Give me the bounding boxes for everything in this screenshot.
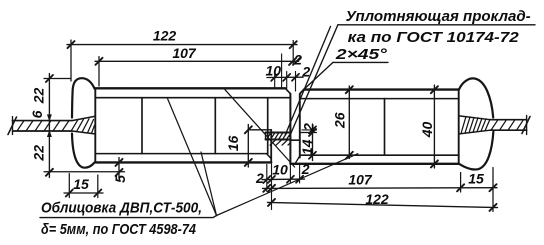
right cap (edge strip): [459, 78, 494, 169]
svg-text:6: 6: [29, 110, 45, 118]
dimension 107 bottom with 15 right: [263, 173, 498, 193]
dimension 2/14 middle right: [301, 124, 317, 161]
svg-text:2: 2: [301, 123, 317, 132]
dimension 5 bottom left: [116, 158, 123, 179]
left cap (edge strip): [72, 78, 95, 168]
svg-text:122: 122: [365, 191, 389, 207]
leader across left leaf: [225, 90, 295, 167]
svg-text:107: 107: [348, 172, 373, 188]
svg-text:Облицовка ДВП,СТ-500,: Облицовка ДВП,СТ-500,: [41, 200, 202, 217]
dimension 26: [346, 86, 353, 159]
svg-text:22: 22: [31, 145, 47, 162]
svg-text:15: 15: [468, 171, 484, 187]
svg-text:40: 40: [419, 122, 435, 139]
svg-text:10: 10: [272, 162, 288, 178]
dimension 107 top: [95, 57, 299, 87]
svg-text:2: 2: [301, 63, 310, 79]
right leaf inner dividers: [384, 99, 386, 156]
svg-text:Уплотняющая проклад-: Уплотняющая проклад-: [346, 8, 531, 25]
right leaf top facing: [300, 90, 459, 99]
leader: sealing gasket note (two branches): [285, 25, 535, 137]
dimension 15 bottom left: [64, 174, 103, 198]
left leaf rebate step: [248, 94, 290, 164]
svg-text:2: 2: [301, 161, 310, 177]
left sealing gasket bar: [8, 116, 95, 134]
svg-text:14: 14: [299, 139, 315, 155]
right sealing gasket bar: [459, 116, 530, 135]
svg-text:5: 5: [112, 175, 128, 183]
svg-text:2: 2: [255, 170, 264, 186]
svg-text:10: 10: [266, 62, 282, 78]
middle sealing gasket (hatched): [266, 133, 291, 146]
svg-text:ка по ГОСТ 10174-72: ка по ГОСТ 10174-72: [348, 29, 520, 46]
right leaf bottom facing: [290, 155, 458, 164]
left leaf top facing: [95, 88, 290, 97]
dimension 122 top: [67, 40, 297, 81]
dimension 16 middle: [245, 125, 252, 168]
svg-text:δ= 5мм, по ГОСТ 4598-74: δ= 5мм, по ГОСТ 4598-74: [41, 221, 197, 238]
svg-text:16: 16: [225, 136, 241, 152]
dimension 2 upper middle tick: [293, 58, 300, 65]
dimension chain 2/10/2 bottom middle: [262, 164, 305, 210]
svg-text:15: 15: [73, 176, 89, 192]
left leaf inner dividers: [142, 98, 268, 154]
svg-text:22: 22: [31, 88, 47, 105]
svg-text:122: 122: [153, 28, 177, 44]
right leaf left edge with chamfer: [290, 90, 303, 158]
leader: 2x45 chamfer: [300, 62, 388, 92]
svg-text:26: 26: [331, 112, 347, 129]
svg-text:2×45°: 2×45°: [335, 46, 389, 63]
svg-text:107: 107: [172, 45, 197, 61]
svg-text:2: 2: [293, 51, 302, 67]
dimension 122 bottom: [268, 168, 498, 212]
left leaf bottom facing: [95, 154, 271, 163]
dimension 40: [431, 85, 438, 168]
leader: facing note (three branches with shelf): [40, 99, 358, 218]
dimension chain 22/6/22 left: [44, 74, 125, 178]
dimension chain 10/2 top middle: [267, 54, 303, 91]
